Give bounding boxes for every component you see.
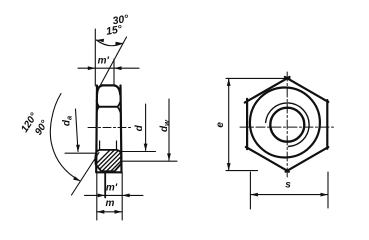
m' bottom dimension line	[85, 194, 144, 196]
thread arc	[266, 103, 309, 147]
s dimension line	[250, 194, 328, 196]
chamfer arc left	[97, 86, 102, 95]
extension line below left face (for m)	[96, 173, 98, 221]
svg-text:s: s	[285, 180, 291, 191]
nut left face	[95, 86, 98, 173]
d dimension line	[145, 104, 147, 151]
d_w extension line	[122, 160, 178, 162]
m' plane extension (bottom, thick)	[104, 173, 106, 198]
d_a dimension line	[76, 109, 79, 152]
d_w dimension line	[168, 99, 170, 160]
svg-text:m: m	[106, 198, 115, 209]
extension line below right face (for m, m')	[121, 173, 123, 221]
d_a extension line	[65, 152, 97, 154]
s right arrow	[321, 193, 329, 197]
m left arrow	[97, 210, 105, 214]
extension line V1 (left, top)	[94, 29, 96, 86]
arrow right of angle arc	[115, 42, 122, 46]
nut top edge	[102, 84, 114, 86]
e dimension line	[228, 78, 230, 170]
vertical centerline	[286, 72, 288, 179]
nut right face	[121, 86, 122, 173]
e bottom arrow	[227, 163, 231, 171]
chamfer circle	[250, 88, 320, 158]
d_w arrow	[167, 153, 171, 160]
m' bottom right arrow	[122, 194, 130, 198]
e extension bottom	[226, 170, 258, 172]
e extension top	[226, 77, 290, 79]
m dimension line	[97, 211, 122, 213]
s left arrow	[250, 193, 258, 197]
m' top right arrow	[114, 66, 122, 70]
d extension line	[122, 151, 156, 153]
chamfer arc right	[114, 86, 120, 95]
hole circle	[270, 108, 304, 142]
m' top dimension line	[78, 67, 139, 69]
nut bottom edge	[97, 171, 122, 173]
hole top line	[99, 106, 118, 108]
arrow at end of 120 arc	[73, 176, 81, 181]
svg-text:m′: m′	[106, 183, 118, 194]
svg-text:m′: m′	[98, 56, 110, 67]
extension line V3 (m' plane, top)	[113, 59, 115, 86]
d_a arrow	[76, 145, 80, 152]
arrow left of angle arc	[96, 39, 104, 43]
chamfer arc right lower	[118, 107, 121, 113]
angle arc 120/90	[50, 94, 79, 181]
chamfer arc left lower	[97, 107, 99, 113]
centerline (axis)	[88, 127, 131, 129]
chamfer arc right upper	[118, 101, 121, 107]
chamfer arc left upper	[97, 101, 100, 107]
e top arrow	[227, 78, 231, 86]
m' top left arrow	[88, 66, 96, 70]
svg-text:e: e	[215, 122, 226, 128]
m' bottom left arrow	[98, 194, 106, 198]
hole wall right	[116, 141, 118, 150]
horizontal centerline	[240, 126, 335, 128]
d arrow	[144, 144, 148, 151]
s extension right	[327, 172, 329, 208]
section blob outline	[95, 150, 121, 171]
angle arc 30/15	[96, 40, 122, 46]
svg-text:d: d	[134, 124, 145, 131]
countersink line 120deg	[72, 153, 100, 196]
chamfer angle line 15deg	[97, 37, 126, 91]
s extension left	[249, 172, 251, 209]
m right arrow	[115, 210, 123, 214]
hole wall left	[99, 141, 101, 150]
hexagon (6 edges, hand overshoot)	[285, 77, 328, 102]
